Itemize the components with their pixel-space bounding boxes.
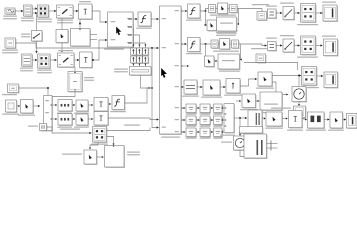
subsystem block WindFarm <box>108 12 134 48</box>
arrowhead into breaker1 <box>76 10 78 12</box>
arrowhead tap A <box>35 51 37 53</box>
label WindFarm <box>104 49 124 50</box>
source block Vs1 <box>5 8 16 15</box>
arrowhead tap B <box>61 50 63 52</box>
junction MX branch <box>239 132 241 134</box>
demux block DM <box>44 96 53 132</box>
grid block r3c2 <box>200 128 211 137</box>
arrowhead into F2 <box>185 43 187 45</box>
wire grid row 1 seg2 <box>210 107 213 109</box>
arrowhead into OR3 <box>258 100 260 102</box>
arrowhead into scope2 <box>320 44 322 46</box>
wire F2 out <box>200 43 211 45</box>
arrowhead grid r2 b0 <box>184 119 186 121</box>
wire VI2 to B2 <box>74 59 79 61</box>
wire tap A down <box>36 14 38 31</box>
series element R1a <box>131 48 137 56</box>
grid block r2c3 <box>214 116 223 125</box>
arrowhead into CSW <box>89 148 91 150</box>
arrowhead into plant in0 <box>157 18 159 20</box>
port label plant out3 <box>175 65 180 66</box>
wire C2 to VI2 <box>50 59 57 61</box>
label R2a above <box>266 38 277 39</box>
machine block M2 <box>22 54 33 67</box>
wire F1 branch down <box>206 11 207 25</box>
wire SW2 down to chain2 <box>61 43 63 52</box>
function block Ftop <box>138 12 152 27</box>
arrowhead GB to bus <box>149 87 151 89</box>
arrowhead into demux <box>38 105 40 107</box>
label R1b above <box>280 3 294 4</box>
label GB left <box>114 69 128 73</box>
wire W2b-W2c <box>88 118 93 120</box>
grid block r1c3 <box>214 104 223 113</box>
subchain block CB3 <box>242 94 256 108</box>
arrowhead into SC2b <box>216 60 218 62</box>
bus block W1a <box>58 100 73 112</box>
wire Ftop to plant in0 <box>151 18 158 20</box>
arrowhead row2 into R2a <box>265 44 267 46</box>
inverter block R1c <box>301 4 317 23</box>
arrowhead grid r1 b2 <box>211 107 213 109</box>
junction MX out <box>239 117 241 119</box>
arrowhead grid r1 b1 <box>198 107 200 109</box>
chain block D2 <box>289 111 303 129</box>
label SC2b inner <box>222 60 235 61</box>
port label WF out4 <box>127 42 132 43</box>
arrowhead into BR2 <box>327 118 329 120</box>
port label DM a <box>45 100 49 101</box>
label CSW left <box>62 154 82 155</box>
wire Ctrl to plant subsystem <box>16 43 159 48</box>
wire D1 to D2 <box>282 118 287 120</box>
label OR3 inner <box>264 104 278 105</box>
label CB <box>91 144 108 145</box>
label OR3 <box>262 112 282 113</box>
label VI2 above <box>58 50 73 51</box>
wire W1a-W1b <box>72 104 75 106</box>
wire SW1 down to chain2 <box>36 41 38 53</box>
chain block G1 <box>184 80 198 95</box>
wire R1b-R1c <box>294 12 300 14</box>
wire BR2-scope4 <box>343 119 346 121</box>
chain block BR1 <box>308 112 325 129</box>
arrowhead grid r2 b3 <box>222 119 224 121</box>
inverter block R3c <box>302 67 318 86</box>
port label plant out5 <box>175 107 180 108</box>
arrowhead into G2 <box>200 86 202 88</box>
wire B2 to plant in2 <box>92 40 107 60</box>
label grid r3c2 <box>200 138 211 139</box>
zoh block Z3 <box>294 106 307 118</box>
subsystem outline OR3 <box>260 92 283 111</box>
tag block U2 <box>256 54 266 63</box>
arrowhead into W1b <box>73 104 75 106</box>
label VI1 <box>57 20 73 24</box>
wire row2 long <box>239 44 267 46</box>
arrowhead grid r2 b2 <box>211 119 213 121</box>
chain block R1a <box>268 9 277 19</box>
label M1 <box>21 18 34 22</box>
label BR2 <box>328 130 344 131</box>
wire R3c-scope3 <box>317 75 323 77</box>
label grid r2c1 <box>186 126 197 127</box>
wire plant to F2 <box>181 43 186 45</box>
arrowhead into converter1 a <box>35 7 37 9</box>
label L2 right <box>84 77 94 81</box>
wire plant to G1 <box>181 86 183 88</box>
wire plant out3 <box>181 65 188 67</box>
wire trio1 b <box>228 8 230 10</box>
port label plant out7 <box>175 131 180 132</box>
arrowhead into M2 <box>245 117 247 119</box>
arrowhead phase C low <box>144 64 146 66</box>
label D1 <box>265 128 283 129</box>
wire grid row 2 seg3 <box>222 119 223 121</box>
label F2 <box>186 53 202 54</box>
label R2b above <box>280 35 294 36</box>
machine block M1 <box>24 5 33 17</box>
arrowhead into C2 <box>35 59 37 61</box>
wire W1c to Fmid <box>108 103 111 105</box>
junction B2 out <box>92 59 94 61</box>
label Ftop <box>136 28 152 29</box>
small block T1a <box>209 5 217 14</box>
label SW1 left <box>21 34 31 38</box>
port plant grid out 2 <box>181 120 183 121</box>
junction tap C <box>79 23 81 25</box>
port label plant out1 <box>175 10 180 11</box>
label WindFarm ports in <box>111 21 116 22</box>
grid block r2c2 <box>200 116 211 125</box>
chain block G4 <box>258 72 273 87</box>
arrowhead into RB left <box>102 156 104 158</box>
wire F2 branch down <box>205 44 207 56</box>
label trio1 <box>210 15 236 16</box>
wire MX out <box>234 117 247 119</box>
label mid smudge <box>124 125 140 126</box>
label trio2 <box>213 51 239 52</box>
arrowhead into gauge3 <box>286 94 288 96</box>
label scope1 above <box>322 2 336 3</box>
wire R2b-R2c <box>294 45 300 47</box>
junction P1-L2 wire <box>47 87 49 89</box>
label RB right <box>127 152 140 156</box>
label SC2 <box>219 71 240 72</box>
function block Fmid <box>112 96 125 111</box>
arrowhead into CB <box>89 132 91 134</box>
wire G4 out main <box>272 75 300 77</box>
arrowhead into B2 <box>77 59 79 61</box>
label GA4 left <box>221 142 232 143</box>
wire CB down <box>107 137 114 145</box>
arrowhead into ZOH3 <box>298 104 300 106</box>
label wire BT1 <box>60 129 80 130</box>
port plant grid out 3 <box>181 132 183 133</box>
chain block W2c <box>94 112 109 126</box>
function block F1 <box>188 4 201 19</box>
label Q2 <box>18 115 35 116</box>
goto stub L1 b <box>90 39 97 41</box>
label R1c <box>297 24 318 25</box>
pwm block G2 <box>203 80 221 96</box>
wire grid row 2 seg2 <box>210 119 213 121</box>
series element R2b <box>137 56 143 64</box>
arrowhead into G3 <box>223 86 225 88</box>
breaker block B2 <box>80 52 93 68</box>
label BR1 <box>306 130 326 131</box>
ground bar block GB <box>130 67 152 76</box>
arrowhead into Fmid <box>109 103 111 105</box>
arrowhead row1 into R1a <box>265 12 267 14</box>
port WF out1 <box>128 19 132 20</box>
label scope2 above <box>322 36 336 37</box>
wire R2c-scope2 <box>316 45 323 47</box>
label Q1 <box>2 114 19 115</box>
arrowhead into R1b <box>280 12 282 14</box>
small block T2a <box>211 40 219 49</box>
wire R2a-R2b <box>276 45 282 47</box>
arrowhead grid r1 b3 <box>222 107 224 109</box>
arrowhead into F1 <box>185 10 187 12</box>
arrowhead into machine1 <box>21 10 23 12</box>
arrowhead into R1c <box>298 12 300 14</box>
label R1a above <box>266 6 277 7</box>
port WF out4 <box>128 43 132 44</box>
port MX in3 <box>225 120 227 121</box>
label W1c <box>95 113 107 114</box>
wire B1 output to plant <box>92 11 107 22</box>
port plant out2 stub <box>181 44 183 45</box>
grid block r3c1 <box>186 128 197 137</box>
port plant out1 stub <box>181 11 183 12</box>
arrowhead into R2c <box>298 44 300 46</box>
arrowhead into gauge4 <box>239 134 241 136</box>
wire grid row 3 seg0 <box>181 131 185 133</box>
arrowhead into Ftop <box>135 18 137 20</box>
load rect RB <box>105 146 125 168</box>
tag block U1 <box>257 12 267 21</box>
arrowhead bus into plant low <box>157 126 159 128</box>
converter block C1 <box>38 5 50 18</box>
wire grid row 1 seg1 <box>196 107 199 109</box>
chain block BR2 <box>330 112 343 129</box>
wire L2 down <box>49 92 76 97</box>
arrowhead into W2a <box>55 118 57 120</box>
arrowhead row into plant <box>157 118 159 120</box>
wire Vs1 to machine1 <box>15 10 23 12</box>
load block L1 <box>71 29 91 47</box>
wire BT1 to CB <box>47 127 92 133</box>
wire G2-G3 <box>220 86 225 88</box>
port plant out4 stub <box>181 87 183 88</box>
label U1 above <box>252 4 269 5</box>
three-phase VI measurement block VI2 <box>58 53 75 68</box>
wire R1c-scope1 <box>316 12 323 14</box>
label M2 <box>20 68 33 72</box>
wire W2a-W2b <box>72 118 75 120</box>
arrowhead into R3c <box>299 75 301 77</box>
arrowhead into plant left in1 <box>105 21 107 23</box>
collection bus vertical <box>152 48 158 128</box>
scope block S3 <box>324 72 338 88</box>
wire GB down to bus <box>141 75 151 88</box>
arrowhead phase B <box>138 45 140 47</box>
port DM out2 <box>51 119 53 120</box>
chain block W1c <box>94 98 109 112</box>
wire Q1-Q2 <box>17 105 20 107</box>
wire Fmid up to bus <box>125 88 151 103</box>
port label WF out2 <box>127 26 132 27</box>
wire gauge3 up <box>298 76 300 87</box>
wire VI1 to breaker1 <box>73 10 78 12</box>
stub end mark <box>270 141 273 151</box>
goto stub L1 a <box>90 34 97 36</box>
wire P1 to demux <box>19 88 49 96</box>
junction row3 main <box>298 75 300 77</box>
phase wire C <box>133 43 145 66</box>
chain block W1b <box>76 100 89 112</box>
wire row3 top link <box>244 63 298 71</box>
grid block r1c1 <box>186 104 197 113</box>
wire CB3 to OR3 <box>256 100 259 102</box>
port MX in2 <box>225 114 227 115</box>
port plant grid out 1 <box>181 108 183 109</box>
wire SC2a to SC2b <box>214 60 217 62</box>
function block F2 <box>188 38 201 53</box>
wire grid row 3 seg2 <box>210 131 213 133</box>
series element R1b <box>131 56 137 64</box>
scope block S4 <box>347 114 357 129</box>
label F1 <box>186 20 202 21</box>
subchain block SC1a <box>207 20 217 31</box>
label P1 <box>2 94 17 95</box>
label grid r2c3 <box>213 126 223 127</box>
wire W2c to plant <box>108 118 158 120</box>
port label DM b <box>45 112 49 113</box>
arrowhead into RB <box>113 144 115 146</box>
tick FB down b <box>257 133 259 134</box>
label Vs1 <box>3 16 17 20</box>
arrowhead into CB3 <box>239 100 241 102</box>
port label plant out2 <box>175 43 180 44</box>
wire grid row 2 seg1 <box>196 119 199 121</box>
label W1b <box>74 113 89 114</box>
label grid r3c3 <box>213 138 223 139</box>
chain block R2b <box>283 39 295 53</box>
arrowhead into W1c <box>91 104 93 106</box>
port L2 bottom <box>74 90 76 91</box>
label trio2 above <box>216 32 236 36</box>
wire trio1 a <box>216 8 218 10</box>
wire grid row 3 seg1 <box>196 131 199 133</box>
wire DM to row1 <box>52 104 57 106</box>
arrowhead into SC1 <box>205 24 207 26</box>
mux block MX <box>224 104 235 134</box>
phase wire B <box>133 35 139 66</box>
scope block S2 <box>324 39 339 56</box>
port label plant in1 <box>162 47 167 48</box>
small block T2b <box>220 39 231 50</box>
wire row1 long <box>237 9 267 14</box>
wire R1a-R1b <box>276 12 282 14</box>
wind farm icon cursor <box>116 27 121 36</box>
wire M1 to converter1 b <box>32 12 37 14</box>
flat block FB <box>240 127 264 134</box>
port MX in1 <box>225 108 227 109</box>
port label plant low <box>162 127 167 128</box>
wire M1 to converter1 <box>32 8 37 10</box>
arrowhead into SC1b right <box>237 23 239 25</box>
arrowhead into R2b <box>280 44 282 46</box>
arrowhead grid r1 b0 <box>184 107 186 109</box>
junction F1 out <box>205 10 207 12</box>
arrowhead into BR1 <box>305 119 307 121</box>
wire DM to row2 <box>52 118 57 120</box>
junction F2 out <box>205 43 207 45</box>
arrowhead grid r3 b0 <box>184 131 186 133</box>
arrowhead into W1a <box>55 104 57 106</box>
gauge block GA3 <box>292 87 307 103</box>
chain block G3 <box>226 79 241 94</box>
arrowhead phase C <box>144 45 146 47</box>
label grid r1c1 <box>186 114 197 115</box>
load rect B5 <box>244 134 267 159</box>
switch block CSW <box>84 150 97 165</box>
arrowhead Ctrl into plant <box>157 47 159 49</box>
junction ctrl-bus <box>151 47 153 49</box>
wire CB out long <box>107 128 151 131</box>
arrowhead into converter1 b <box>35 12 37 14</box>
discrete block D1 <box>266 112 283 127</box>
label grid r1c3 <box>213 114 223 115</box>
wire VI2 down to L2 <box>74 67 76 72</box>
label Plant <box>161 137 180 138</box>
arrowhead into Q2 <box>18 105 20 107</box>
wire F1 out <box>200 9 209 12</box>
label grid r1c2 <box>200 114 211 115</box>
label R2c <box>297 57 318 58</box>
arrowhead into scope3 <box>321 75 323 77</box>
wire CB low branch <box>90 142 98 149</box>
mouse cursor <box>161 68 167 78</box>
port plant out3 stub <box>181 66 183 67</box>
wire M2 to C2 <box>32 59 37 61</box>
arrowhead grid r3 b1 <box>198 131 200 133</box>
converter block C2 <box>38 54 51 69</box>
wire grid row 2 seg0 <box>181 119 185 121</box>
subchain block SC2a <box>205 56 215 67</box>
port WF out2 <box>128 27 132 28</box>
wire tap C down <box>79 19 81 29</box>
scope block S1 <box>323 5 338 22</box>
label B1 above <box>79 1 91 2</box>
load block L2 <box>68 72 83 93</box>
label C1 <box>37 19 52 23</box>
label W1a <box>57 113 72 114</box>
converter block CB <box>93 127 108 143</box>
label C2 <box>37 70 52 74</box>
wire plant to F1 <box>181 10 186 12</box>
grid block r3c3 <box>214 128 223 137</box>
source block Ctrl <box>5 38 16 49</box>
label Z3 left <box>271 108 291 109</box>
arrowhead phase A low <box>132 64 134 66</box>
series element R3b <box>143 56 149 64</box>
switch block SW1 <box>32 31 43 42</box>
wire trio2 b <box>230 43 232 45</box>
chain block R2a <box>268 42 277 52</box>
